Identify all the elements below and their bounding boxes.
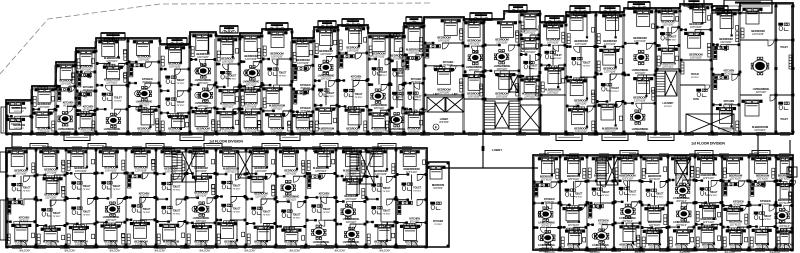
door — [173, 174, 179, 180]
svg-text:BALCONY: BALCONY — [110, 250, 121, 253]
lower balcony — [602, 134, 628, 141]
bed — [671, 158, 690, 174]
window — [779, 249, 789, 252]
wall — [190, 84, 200, 86]
wardrobe — [567, 34, 570, 44]
door — [574, 47, 580, 53]
svg-text:7'6"X5'0": 7'6"X5'0" — [554, 58, 562, 60]
partition — [701, 4, 703, 22]
door — [253, 62, 259, 68]
window — [540, 133, 550, 136]
svg-text:7'6"X5'0": 7'6"X5'0" — [114, 100, 122, 102]
svg-text:11'0"X10'0": 11'0"X10'0" — [347, 131, 359, 134]
door — [350, 224, 356, 230]
window — [72, 147, 82, 150]
stair shaft — [509, 75, 518, 92]
stair treads — [484, 101, 495, 129]
wardrobe — [191, 47, 194, 57]
wall — [722, 205, 732, 207]
door — [688, 227, 694, 233]
toilet fixtures — [392, 92, 403, 100]
wardrobe — [247, 234, 250, 244]
wardrobe — [480, 86, 483, 96]
wall — [712, 73, 724, 75]
wardrobe — [194, 224, 205, 227]
bed — [697, 158, 716, 174]
wall — [566, 46, 572, 48]
window — [222, 147, 232, 150]
partition — [586, 77, 588, 97]
door — [416, 55, 422, 61]
window — [683, 249, 693, 252]
bed — [293, 41, 312, 57]
door — [346, 176, 352, 182]
partition — [356, 176, 358, 194]
wardrobe — [597, 34, 600, 44]
partition — [232, 36, 234, 56]
wall — [614, 180, 622, 182]
door — [48, 109, 54, 115]
door — [171, 241, 177, 247]
stair treads — [656, 71, 665, 96]
window — [659, 249, 669, 252]
wall — [96, 221, 108, 223]
door — [580, 77, 586, 83]
bed — [217, 111, 236, 127]
svg-text:TOILET: TOILET — [382, 187, 390, 190]
door — [724, 105, 730, 111]
bed — [563, 207, 582, 220]
window — [372, 246, 382, 249]
wall — [156, 198, 168, 200]
door — [265, 174, 271, 180]
svg-text:LIVING/DINING: LIVING/DINING — [538, 222, 555, 225]
stair shaft — [238, 152, 252, 178]
svg-text:TOILET: TOILET — [628, 190, 636, 193]
svg-text:LIVING/DINING: LIVING/DINING — [466, 66, 483, 69]
bed — [279, 151, 298, 167]
wall — [246, 173, 257, 175]
wardrobe — [81, 111, 89, 114]
door — [660, 182, 666, 188]
svg-text:12'0"X10'6": 12'0"X10'6" — [245, 106, 257, 109]
svg-text:C: C — [136, 92, 139, 96]
door — [202, 173, 208, 179]
wardrobe — [723, 168, 726, 178]
bed — [400, 225, 419, 240]
apartment column B1_10 — [775, 158, 796, 252]
door — [387, 199, 393, 205]
window — [372, 133, 382, 136]
wardrobe — [241, 96, 244, 106]
wardrobe — [516, 32, 519, 42]
wardrobe — [386, 121, 389, 131]
wall — [566, 105, 579, 107]
svg-text:BALCONY: BALCONY — [245, 250, 256, 253]
svg-text:7'6"X5'0": 7'6"X5'0" — [655, 196, 663, 198]
svg-text:K: K — [594, 234, 597, 238]
bed — [496, 73, 515, 89]
balcony box — [600, 6, 620, 13]
dining table — [541, 231, 555, 245]
svg-text:11'0"X10'0": 11'0"X10'0" — [255, 195, 267, 198]
door — [740, 206, 746, 212]
kitchen counter — [130, 63, 145, 66]
toilet fixtures — [660, 32, 671, 40]
door — [263, 224, 269, 230]
door — [24, 176, 30, 182]
svg-text:LOBBY: LOBBY — [492, 148, 503, 152]
svg-text:PASS: PASS — [693, 98, 699, 101]
bed — [316, 108, 335, 124]
window — [228, 246, 238, 249]
bed — [43, 178, 62, 194]
window — [324, 246, 334, 249]
door — [790, 181, 796, 187]
wardrobe — [122, 234, 125, 244]
door — [115, 109, 121, 115]
bed — [192, 225, 211, 240]
wardrobe — [62, 162, 65, 172]
wardrobe — [702, 156, 713, 159]
door — [119, 63, 125, 69]
svg-text:LIVING/DINING: LIVING/DINING — [58, 128, 75, 131]
svg-text:21'0"X12'0": 21'0"X12'0" — [756, 92, 767, 94]
wardrobe — [420, 42, 423, 52]
door — [711, 181, 717, 187]
window — [492, 133, 502, 136]
bed — [497, 22, 516, 38]
wardrobe — [164, 149, 175, 152]
svg-text:7'6"X5'0": 7'6"X5'0" — [582, 65, 590, 67]
wall — [712, 44, 719, 46]
bed — [241, 112, 260, 128]
wardrobe — [696, 211, 699, 221]
toilet fixtures — [162, 206, 173, 214]
bed — [658, 11, 677, 21]
wall — [186, 222, 194, 224]
svg-text:LIVING/DINING: LIVING/DINING — [193, 217, 210, 220]
bed — [544, 25, 563, 39]
kitchen counter — [8, 204, 11, 214]
window — [731, 249, 741, 252]
wall — [292, 64, 297, 66]
wall — [776, 180, 782, 182]
wall — [32, 108, 40, 110]
svg-text:10'6"X10'0": 10'6"X10'0" — [468, 43, 480, 46]
wall — [66, 172, 73, 174]
step unit — [427, 162, 449, 247]
partition — [282, 111, 284, 127]
door — [760, 227, 766, 233]
wardrobe — [67, 234, 70, 244]
svg-text:7'6"X5'0": 7'6"X5'0" — [232, 188, 240, 190]
bed — [521, 79, 539, 93]
dining table — [631, 110, 645, 124]
wall — [776, 227, 779, 229]
svg-text:LIVING/DINING: LIVING/DINING — [318, 75, 335, 78]
dining table — [751, 57, 769, 75]
stair treads — [172, 152, 182, 182]
toilet fixtures — [754, 212, 765, 220]
wardrobe — [127, 234, 130, 244]
svg-text:12'6"X11'0": 12'6"X11'0" — [703, 221, 715, 224]
partition — [266, 148, 268, 166]
window — [60, 133, 70, 136]
svg-text:7'6"X5'0": 7'6"X5'0" — [574, 196, 582, 198]
bed — [427, 166, 445, 179]
apartment column T8 — [190, 32, 218, 135]
closet bump — [378, 144, 396, 149]
closet bump — [320, 144, 338, 149]
toilet fixtures — [162, 182, 173, 190]
svg-text:TOILET: TOILET — [176, 79, 184, 82]
kitchen counter — [78, 77, 81, 87]
wardrobe — [307, 160, 310, 170]
bed — [266, 113, 285, 127]
wall — [216, 219, 222, 221]
dining table — [198, 88, 212, 102]
bed — [777, 231, 792, 244]
wardrobe — [691, 167, 694, 177]
stair shaft — [182, 152, 196, 182]
door — [178, 222, 184, 228]
bed — [248, 176, 267, 192]
bed — [400, 151, 419, 167]
toilet fixtures — [222, 181, 233, 189]
svg-text:8'0"X6'0": 8'0"X6'0" — [664, 106, 672, 108]
dining table — [245, 66, 259, 80]
svg-text:TOILET: TOILET — [292, 213, 300, 216]
wardrobe — [314, 149, 325, 152]
wardrobe — [772, 168, 775, 178]
svg-text:KITCHEN: KITCHEN — [443, 61, 454, 64]
apartment column T29 — [775, 3, 778, 134]
wardrobe — [246, 87, 255, 90]
svg-text:TOILET: TOILET — [530, 64, 538, 67]
wardrobe — [7, 234, 10, 244]
stair shaft — [446, 97, 464, 112]
partition — [56, 148, 58, 167]
wardrobe — [392, 164, 395, 174]
svg-text:11'0"X10'0": 11'0"X10'0" — [345, 198, 357, 201]
toilet fixtures — [102, 93, 113, 101]
wardrobe — [597, 61, 600, 71]
svg-text:7'6"X5'0": 7'6"X5'0" — [22, 191, 30, 193]
svg-text:TOILET: TOILET — [176, 101, 184, 104]
wall — [520, 54, 527, 56]
bed — [68, 151, 87, 167]
partition — [356, 148, 358, 168]
svg-text:10'6"X10'0": 10'6"X10'0" — [690, 26, 702, 29]
door — [145, 83, 151, 89]
wardrobe — [750, 237, 753, 247]
wardrobe — [789, 168, 792, 178]
bed — [643, 230, 662, 243]
svg-text:TOILET: TOILET — [326, 92, 334, 95]
wardrobe — [642, 237, 645, 247]
window — [588, 133, 598, 136]
toilet fixtures — [252, 207, 263, 215]
apartment column B1_6 — [668, 155, 697, 251]
door — [177, 91, 183, 97]
svg-text:KITCHEN: KITCHEN — [433, 220, 443, 223]
door — [626, 223, 632, 229]
svg-text:TOILET: TOILET — [322, 208, 330, 211]
svg-text:12'6"X11'0": 12'6"X11'0" — [703, 177, 715, 180]
svg-text:12'6"X11'0": 12'6"X11'0" — [320, 131, 332, 134]
lower balcony — [648, 134, 674, 141]
svg-text:KITCHEN: KITCHEN — [63, 101, 74, 104]
dining table — [105, 202, 119, 216]
apartment column B0_9 — [246, 148, 278, 248]
svg-text:KITCHEN: KITCHEN — [300, 84, 311, 87]
bed — [643, 158, 662, 174]
site boundary dashed line — [0, 3, 432, 74]
toilet fixtures — [132, 205, 143, 213]
wall — [366, 176, 378, 178]
door — [80, 91, 86, 97]
stair shaft — [495, 103, 509, 128]
partition — [358, 25, 360, 45]
door — [669, 46, 675, 52]
wall — [262, 110, 275, 112]
wall — [246, 198, 253, 200]
door — [51, 241, 57, 247]
door — [208, 85, 214, 91]
window — [539, 154, 549, 157]
wall — [368, 84, 373, 86]
bed — [564, 158, 583, 174]
window — [252, 147, 262, 150]
svg-text:D: D — [196, 69, 199, 73]
wall — [520, 75, 524, 77]
toilet fixtures — [565, 189, 576, 197]
wardrobe — [536, 86, 539, 96]
toilet fixtures — [601, 83, 612, 91]
door — [600, 181, 606, 187]
wall — [366, 198, 379, 200]
wardrobe — [603, 13, 614, 16]
bed — [521, 38, 539, 49]
closet bump — [30, 144, 48, 149]
wall — [668, 226, 680, 228]
svg-text:TOILET: TOILET — [554, 54, 562, 57]
toilet fixtures — [166, 98, 177, 106]
partition — [386, 148, 388, 168]
lower balcony — [556, 134, 582, 141]
wardrobe — [702, 225, 713, 228]
wall — [656, 26, 664, 28]
bed — [405, 112, 423, 128]
wall — [240, 85, 246, 87]
wardrobe — [104, 39, 115, 42]
svg-text:7'6"X5'0": 7'6"X5'0" — [172, 190, 180, 192]
wardrobe — [310, 121, 313, 131]
wall — [96, 62, 111, 64]
wall — [424, 42, 434, 44]
svg-text:12'6"X11'0": 12'6"X11'0" — [408, 51, 420, 54]
door — [494, 71, 500, 77]
kitchen counter — [426, 45, 441, 48]
apartment column T26 — [656, 4, 682, 134]
door — [81, 224, 87, 230]
apartment column B0_1 — [6, 148, 38, 248]
partition — [767, 227, 769, 243]
toilet fixtures — [431, 202, 442, 210]
svg-text:12'0"X10'6": 12'0"X10'6" — [38, 131, 50, 134]
window — [348, 246, 358, 249]
door — [655, 244, 661, 250]
window — [192, 147, 202, 150]
door — [321, 241, 327, 247]
svg-text:12'6"X11'0": 12'6"X11'0" — [662, 66, 674, 69]
wall — [695, 202, 707, 204]
svg-text:KITCHEN: KITCHEN — [351, 76, 362, 79]
apartment column B0_3 — [66, 148, 98, 248]
door — [540, 228, 546, 234]
svg-text:KITCHEN: KITCHEN — [19, 217, 30, 220]
window — [132, 147, 142, 150]
wall — [336, 201, 345, 203]
wardrobe — [460, 30, 463, 40]
toilet fixtures — [72, 207, 83, 215]
door — [142, 173, 148, 179]
svg-text:11'0"X10'0": 11'0"X10'0" — [297, 131, 309, 134]
bed — [69, 226, 88, 240]
apartment column T14 — [338, 25, 370, 135]
wall — [216, 108, 225, 110]
partition — [236, 220, 238, 239]
stair shaft — [520, 105, 541, 130]
dining table — [539, 207, 553, 221]
window — [282, 147, 292, 150]
svg-text:11'0"X10'0": 11'0"X10'0" — [285, 173, 297, 176]
svg-text:TOILET: TOILET — [382, 210, 390, 213]
door — [595, 203, 601, 209]
apartment column B1_3 — [587, 155, 616, 251]
kitchen counter — [294, 94, 297, 104]
door — [382, 222, 388, 228]
window — [684, 133, 694, 136]
wardrobe — [38, 87, 48, 90]
partition — [645, 75, 647, 95]
band outer wall — [6, 148, 427, 247]
svg-text:LIVING/DINING: LIVING/DINING — [753, 88, 770, 91]
wardrobe — [789, 55, 792, 69]
wardrobe — [642, 169, 645, 179]
bed — [568, 109, 587, 125]
svg-text:10'6"X10'0": 10'6"X10'0" — [575, 43, 587, 46]
svg-text:7'6"X5'0": 7'6"X5'0" — [326, 96, 334, 98]
svg-text:BEDROOM: BEDROOM — [432, 184, 444, 187]
partition — [86, 148, 88, 166]
wall — [533, 181, 543, 183]
bed — [716, 107, 735, 123]
door — [385, 59, 391, 65]
toilet fixtures — [372, 68, 383, 76]
bed — [434, 68, 453, 84]
partition — [326, 148, 328, 166]
stair shaft — [606, 157, 618, 185]
wardrobe — [44, 176, 55, 179]
unit mark D — [195, 92, 201, 98]
unit mark K — [592, 233, 598, 239]
svg-text:TOILET: TOILET — [114, 96, 122, 99]
dining table — [677, 207, 691, 221]
door — [199, 60, 205, 66]
bed — [130, 222, 149, 238]
